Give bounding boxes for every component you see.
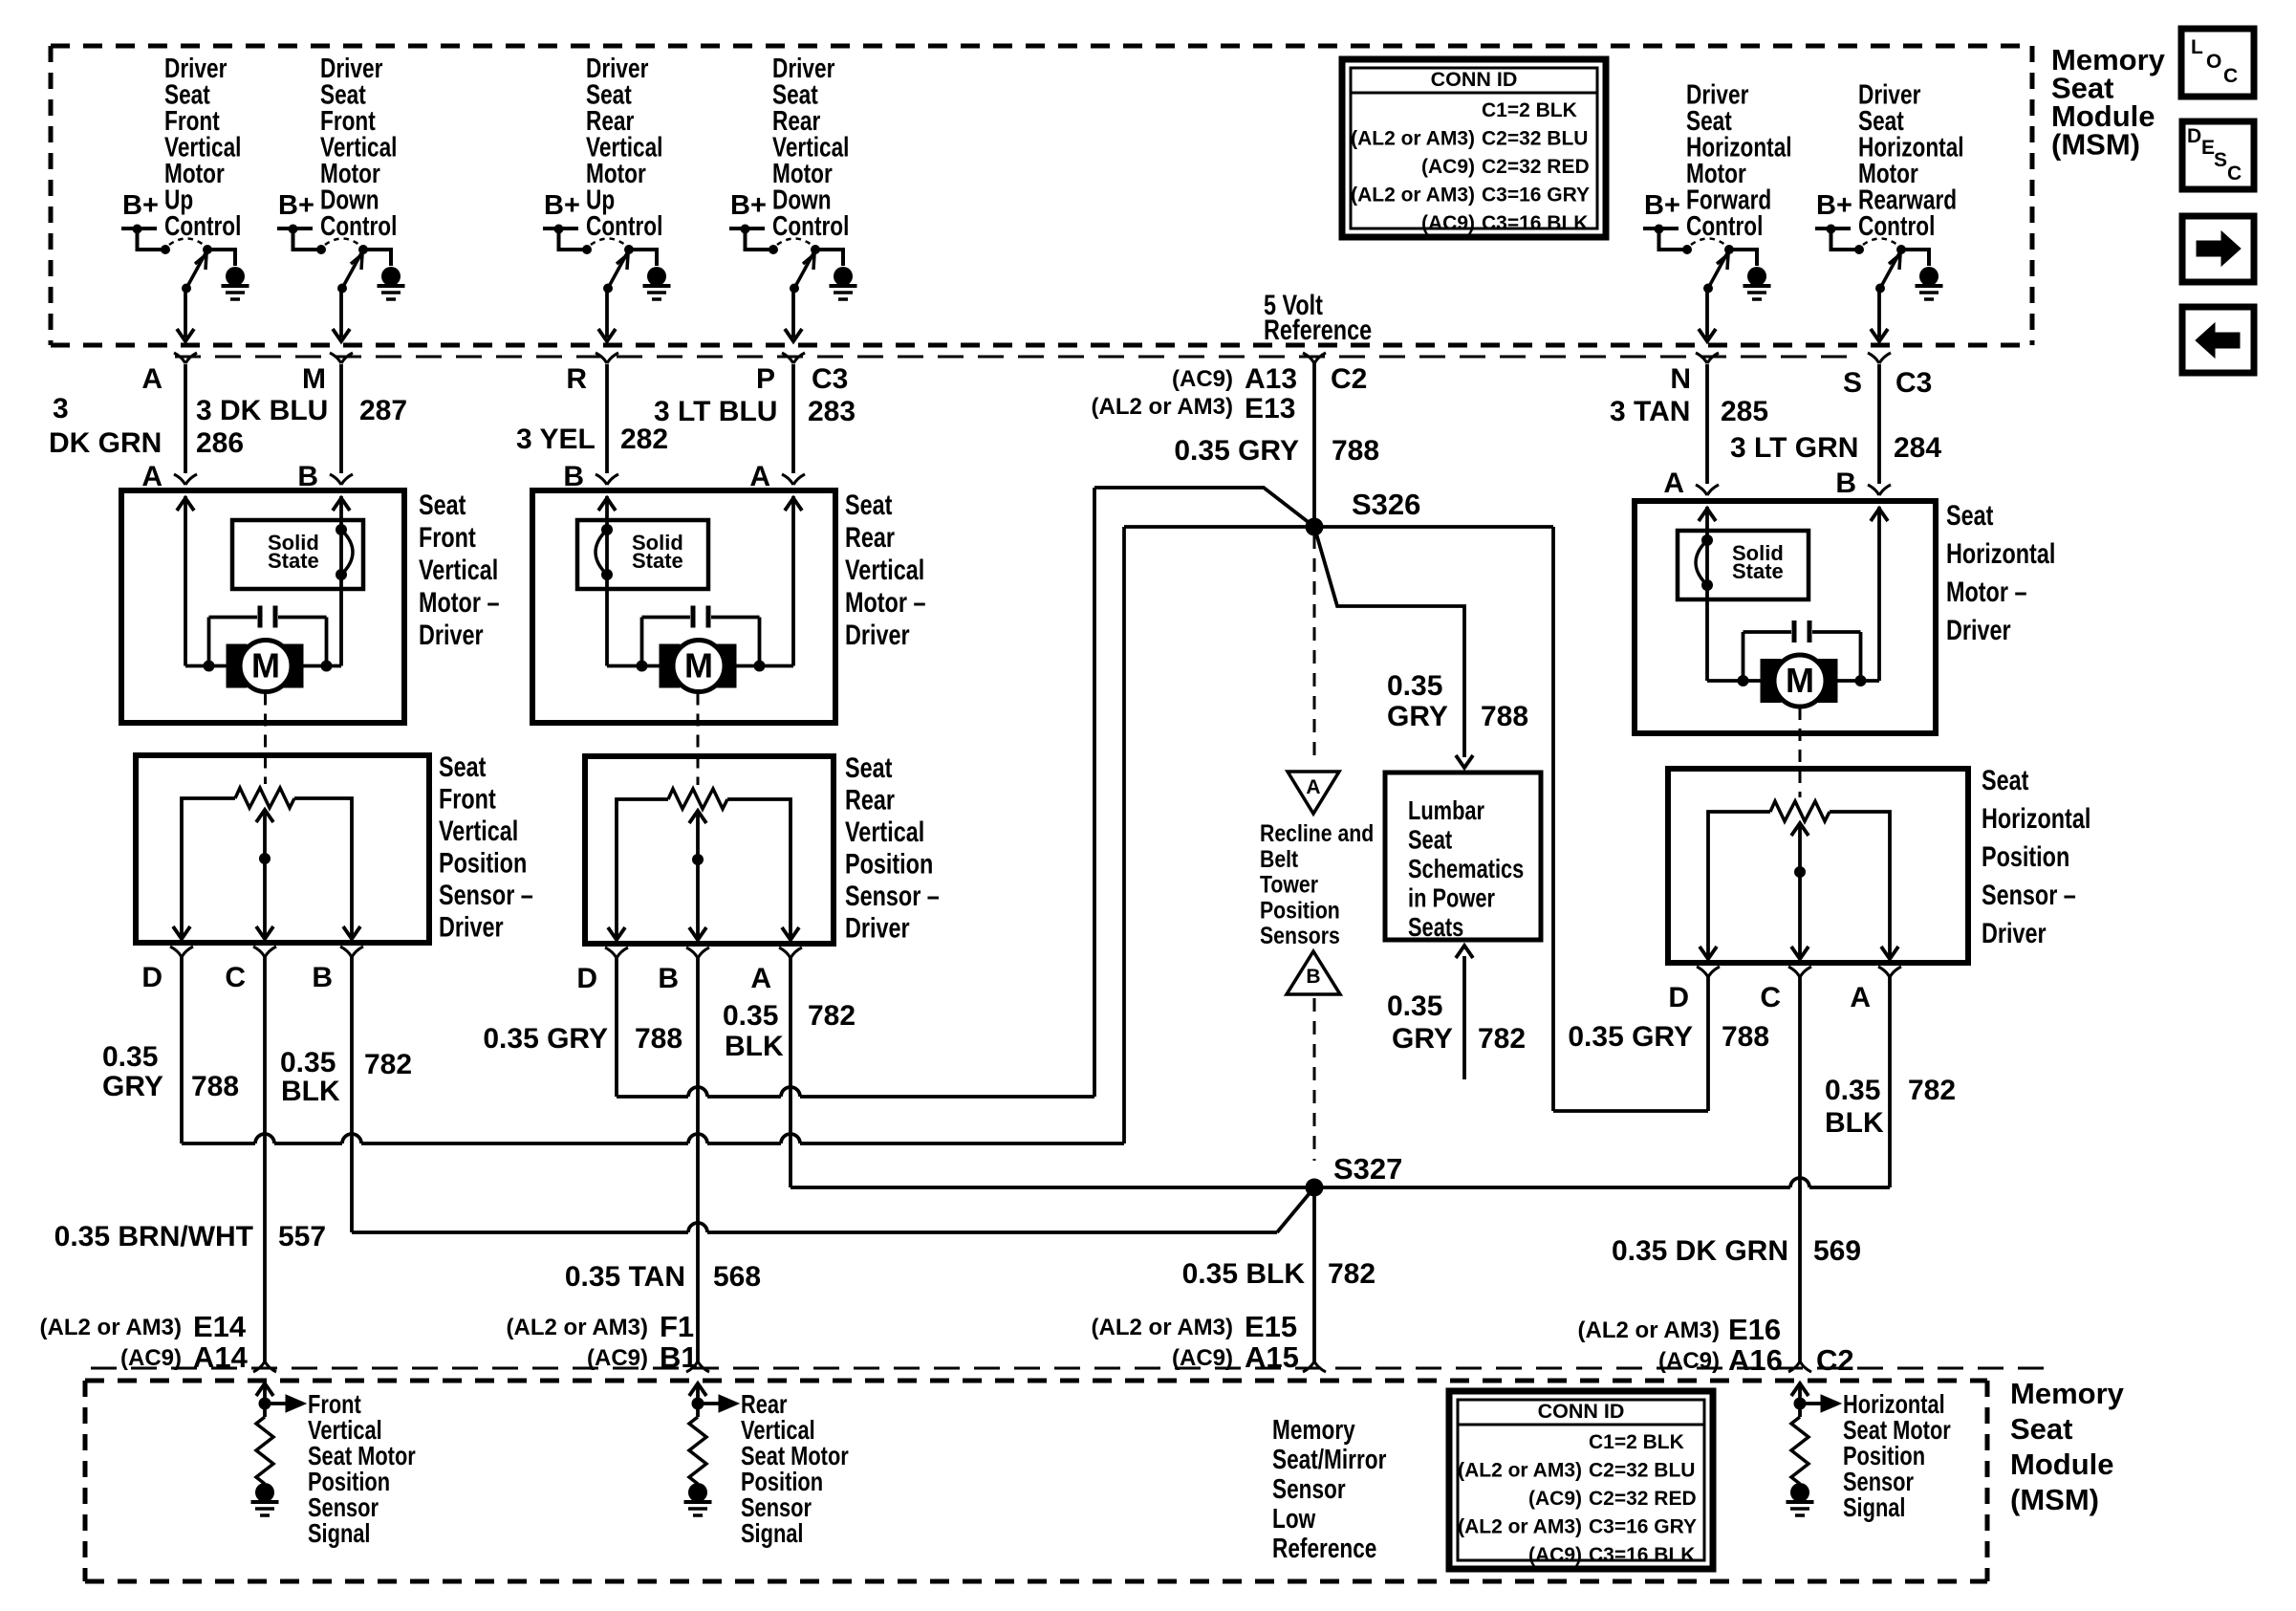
off-page triangle B	[1287, 951, 1340, 994]
svg-text:BLK: BLK	[725, 1031, 784, 1062]
svg-text:568: 568	[713, 1261, 761, 1293]
seat front vertical position sensor wiper	[256, 810, 273, 939]
svg-text:3 TAN: 3 TAN	[1610, 396, 1690, 427]
5 Volt Reference label	[1264, 289, 1372, 345]
wire 788 vertical to sensor 1 D	[1122, 527, 1126, 1143]
svg-text:Driver: Driver	[845, 619, 910, 650]
svg-text:Signal: Signal	[741, 1518, 803, 1548]
svg-text:Vertical: Vertical	[845, 554, 924, 585]
svg-text:BLK: BLK	[281, 1076, 340, 1107]
svg-text:S327: S327	[1333, 1152, 1402, 1186]
wire 782 feed from lumbar schematic	[1456, 946, 1473, 1079]
svg-text:GRY: GRY	[1387, 701, 1448, 732]
5V reference dashed stub to S327	[1313, 998, 1316, 1161]
switch SW5 driver seat horizontal motor forward control movable arm	[1703, 252, 1728, 294]
svg-text:C3=16 BLK: C3=16 BLK	[1482, 212, 1588, 234]
circuit 569 label: 0.35 DK GRN	[1612, 1235, 1861, 1267]
terminal (horizontal signal) connector	[1788, 1361, 1811, 1372]
svg-text:Sensor: Sensor	[1272, 1472, 1346, 1504]
svg-text:0.35 DK GRN: 0.35 DK GRN	[1612, 1235, 1788, 1267]
svg-text:Control: Control	[772, 209, 849, 241]
LOC legend box	[2181, 29, 2254, 97]
svg-text:M: M	[684, 646, 713, 686]
switch SW3 driver seat rear vertical motor up control label	[586, 52, 662, 241]
wire 283 upper segment	[791, 364, 795, 473]
circuit 782 label (sensor 3)	[1825, 1075, 1956, 1139]
switch SW1 driver seat front vertical motor up control ground leg	[207, 250, 249, 299]
svg-text:Control: Control	[1858, 209, 1935, 241]
circuit 282 label: 3 YEL	[516, 424, 668, 455]
svg-text:in Power: in Power	[1408, 883, 1495, 913]
svg-text:C3: C3	[1895, 367, 1932, 399]
svg-text:Sensor –: Sensor –	[1982, 879, 2076, 910]
circuit 557 label: 0.35 BRN/WHT	[54, 1221, 326, 1252]
connector face dashed line (top)	[175, 356, 1859, 359]
svg-text:Seat: Seat	[1982, 764, 2028, 795]
svg-text:0.35 GRY: 0.35 GRY	[1568, 1021, 1693, 1053]
svg-text:C1=2 BLK: C1=2 BLK	[1589, 1431, 1684, 1453]
svg-text:Vertical: Vertical	[439, 815, 518, 846]
seat rear vertical motor M2 brushes	[660, 644, 736, 687]
seat rear vertical motor M2 suppression capacitor	[642, 606, 760, 666]
svg-text:Memory: Memory	[2010, 1377, 2125, 1410]
svg-text:C: C	[1760, 982, 1781, 1013]
wire 788 bus to sensor 3 D terminal	[1553, 976, 1708, 1111]
switch SW1 driver seat front vertical motor up control label	[164, 52, 241, 241]
horizontal position sense junction dot and pointer	[1794, 1395, 1842, 1412]
svg-text:Seat: Seat	[419, 489, 466, 520]
svg-text:0.35: 0.35	[280, 1047, 336, 1078]
seat front vertical motor M1 label	[419, 489, 499, 650]
seat horizontal position sensor wiper	[1791, 823, 1809, 959]
svg-text:Seat/Mirror: Seat/Mirror	[1272, 1443, 1386, 1474]
terminal C2 (5V ref)	[1303, 353, 1326, 363]
svg-text:Sensors: Sensors	[1260, 923, 1340, 949]
svg-text:R: R	[566, 363, 587, 395]
svg-text:(AL2 or AM3): (AL2 or AM3)	[1578, 1317, 1720, 1343]
svg-text:782: 782	[1908, 1075, 1956, 1106]
svg-text:E14: E14	[193, 1310, 247, 1343]
svg-text:Control: Control	[586, 209, 662, 241]
S326 northwest branch wire 788	[1094, 488, 1314, 527]
switch SW6 driver seat horizontal motor rearward control ground leg	[1901, 250, 1943, 299]
svg-text:(AL2 or AM3): (AL2 or AM3)	[1458, 1516, 1582, 1538]
wire 788 bus to sensor 1 D terminal	[182, 956, 1124, 1143]
svg-text:C2=32 BLU: C2=32 BLU	[1482, 128, 1588, 150]
svg-text:Position: Position	[845, 848, 933, 880]
switch SW2 driver seat front vertical motor down control B+ supply	[277, 190, 317, 250]
svg-text:Control: Control	[320, 209, 397, 241]
circuit 284 label: 3 LT GRN	[1730, 432, 1941, 464]
svg-text:B+: B+	[544, 190, 580, 221]
Memory Seat Module (bottom) dashed boundary	[85, 1381, 1987, 1581]
seat front vertical motor M1 solid state box	[232, 520, 363, 589]
svg-text:788: 788	[1722, 1021, 1769, 1053]
svg-text:Rear: Rear	[845, 521, 895, 553]
svg-text:Low: Low	[1272, 1502, 1316, 1534]
svg-text:Driver: Driver	[845, 912, 910, 944]
svg-text:Module: Module	[2010, 1448, 2114, 1481]
svg-text:Seat: Seat	[1946, 499, 1993, 531]
svg-text:CONN ID: CONN ID	[1431, 68, 1518, 91]
front vertical position sense ground	[251, 1483, 279, 1515]
svg-text:A13: A13	[1245, 363, 1297, 395]
svg-text:Memory: Memory	[1272, 1413, 1355, 1445]
seat rear vertical position sensor potentiometer resistor	[668, 789, 727, 809]
svg-text:State: State	[268, 549, 319, 573]
svg-text:Belt: Belt	[1260, 845, 1298, 872]
svg-text:B+: B+	[122, 190, 159, 221]
svg-text:(MSM): (MSM)	[2051, 128, 2140, 162]
mechanical link motor M1 to sensor	[264, 693, 267, 785]
seat rear vertical motor M2 terminal letters	[563, 461, 770, 492]
rear vertical position sense junction dot and pointer	[692, 1395, 740, 1412]
seat rear vertical motor M2 motor symbol M	[673, 641, 725, 692]
svg-text:569: 569	[1813, 1235, 1861, 1267]
svg-text:L: L	[2191, 36, 2203, 58]
switch SW3 driver seat rear vertical motor up control contacts and dashed throw arc	[582, 239, 634, 255]
svg-text:Vertical: Vertical	[419, 554, 498, 585]
seat front vertical motor M1 armature cross wire	[185, 664, 341, 668]
terminal M (MSM C2)	[302, 353, 353, 395]
switch SW3 driver seat rear vertical motor up control ground leg	[629, 250, 671, 299]
svg-text:Control: Control	[1686, 209, 1763, 241]
svg-text:0.35 GRY: 0.35 GRY	[483, 1023, 608, 1055]
svg-text:(AC9): (AC9)	[1528, 1544, 1582, 1566]
terminal A (MSM C2)	[141, 353, 197, 395]
switch SW1 driver seat front vertical motor up control B+ supply	[121, 190, 162, 250]
back arrow legend box	[2182, 307, 2254, 373]
svg-text:B+: B+	[278, 190, 314, 221]
wire 782 bus sensor 2 A to sensor 3 A	[791, 957, 1890, 1187]
svg-text:B: B	[1835, 468, 1856, 499]
seat front vertical motor M1 right terminal wire	[333, 496, 350, 666]
seat rear vertical motor M2 breaker contacts in solid state box	[596, 524, 613, 580]
svg-text:3 LT GRN: 3 LT GRN	[1730, 432, 1858, 464]
wire 557 sensor 1 C signal	[263, 956, 267, 1361]
svg-text:0.35 GRY: 0.35 GRY	[1174, 435, 1299, 467]
svg-text:Front: Front	[419, 521, 476, 553]
svg-text:M: M	[251, 646, 280, 686]
svg-text:A: A	[141, 461, 162, 492]
DESC legend box	[2182, 121, 2254, 189]
wire 788 bus to sensor 2 D terminal	[617, 957, 1094, 1097]
mechanical link motor M2 to sensor	[697, 693, 700, 786]
front vertical position sense resistor	[256, 1417, 273, 1484]
terminal R (MSM C2)	[566, 353, 618, 395]
seat front vertical position sensor label	[439, 751, 533, 943]
terminal E14/A14 labels	[40, 1310, 249, 1374]
switch SW2 driver seat front vertical motor down control output wire with arrow	[333, 289, 350, 342]
wire 788 vertical to sensor 3 D	[1551, 527, 1555, 1111]
svg-text:Motor –: Motor –	[845, 586, 925, 618]
seat rear vertical position sensor right leg	[727, 799, 799, 940]
svg-text:B: B	[312, 962, 333, 993]
seat front vertical position sensor right leg	[294, 798, 360, 939]
seat horizontal motor M3 breaker contacts in solid state box	[1696, 534, 1713, 591]
wire 569 sensor 3 C signal	[1798, 976, 1802, 1361]
svg-text:0.35 BLK: 0.35 BLK	[1182, 1258, 1306, 1290]
S326 east branch wire 788	[1314, 525, 1553, 529]
svg-text:GRY: GRY	[102, 1071, 163, 1102]
svg-text:782: 782	[808, 1000, 856, 1032]
svg-text:Sensor –: Sensor –	[439, 879, 533, 910]
svg-text:(AC9): (AC9)	[1658, 1348, 1720, 1374]
svg-text:D: D	[2187, 125, 2201, 147]
svg-text:Vertical: Vertical	[845, 816, 924, 847]
svg-text:(AL2 or AM3): (AL2 or AM3)	[1351, 185, 1475, 207]
svg-text:286: 286	[196, 427, 244, 459]
wire 284 upper segment	[1877, 364, 1881, 484]
svg-text:A: A	[749, 461, 770, 492]
circuit 782 label (lumbar)	[1387, 991, 1526, 1055]
switch SW3 driver seat rear vertical motor up control B+ supply	[543, 190, 583, 250]
seat horizontal motor M3 outer box	[1635, 501, 1936, 733]
splice S326	[1306, 488, 1421, 536]
wire 287 upper segment	[339, 364, 343, 473]
seat horizontal motor M3 armature cross wire	[1707, 679, 1879, 683]
svg-text:0.35: 0.35	[1825, 1075, 1880, 1106]
svg-text:C3=16 GRY: C3=16 GRY	[1589, 1516, 1697, 1538]
wire 285 upper segment	[1705, 364, 1709, 484]
switch SW5 driver seat horizontal motor forward control B+ supply	[1643, 190, 1683, 250]
svg-text:Seat: Seat	[845, 751, 892, 783]
circuit 782 label (sensor 1)	[280, 1047, 412, 1107]
svg-text:788: 788	[1332, 435, 1379, 467]
svg-text:Signal: Signal	[1843, 1492, 1905, 1522]
svg-text:Seat: Seat	[845, 489, 892, 520]
svg-text:282: 282	[620, 424, 668, 455]
svg-text:284: 284	[1894, 432, 1941, 464]
svg-text:C: C	[225, 962, 246, 993]
front vertical position sense label	[308, 1389, 416, 1548]
svg-text:Motor –: Motor –	[1946, 576, 2026, 607]
svg-text:C: C	[2227, 163, 2242, 185]
svg-text:D: D	[576, 963, 597, 994]
CONN ID (top) table	[1342, 59, 1606, 237]
svg-text:C3=16 GRY: C3=16 GRY	[1482, 185, 1590, 207]
switch SW2 driver seat front vertical motor down control contacts and dashed throw arc	[316, 239, 368, 255]
switch SW5 driver seat horizontal motor forward control contacts and dashed throw arc	[1682, 239, 1734, 255]
switch SW6 driver seat horizontal motor rearward control contacts and dashed throw arc	[1854, 239, 1906, 255]
switch SW5 driver seat horizontal motor forward control ground leg	[1729, 250, 1771, 299]
seat front vertical position sensor outer box	[136, 755, 429, 943]
svg-text:M: M	[302, 363, 326, 395]
seat horizontal position sensor left leg	[1700, 812, 1770, 959]
svg-text:Schematics: Schematics	[1408, 854, 1524, 883]
switch SW5 driver seat horizontal motor forward control output wire with arrow	[1699, 289, 1716, 342]
svg-text:B: B	[297, 461, 318, 492]
seat horizontal position sensor outer box	[1668, 769, 1968, 963]
front vertical position sense junction dot and pointer	[259, 1395, 307, 1412]
seat front vertical motor M1 junction dots	[204, 661, 333, 672]
svg-text:Driver: Driver	[419, 619, 484, 650]
seat horizontal motor M3 terminal letters	[1663, 468, 1856, 499]
svg-text:M: M	[1786, 661, 1814, 700]
svg-text:GRY: GRY	[1392, 1023, 1453, 1055]
seat horizontal motor M3 left terminal wire	[1699, 507, 1716, 681]
terminal E16/A16 labels	[1578, 1313, 1854, 1377]
svg-text:Motor –: Motor –	[419, 586, 499, 618]
svg-text:A: A	[1663, 468, 1684, 499]
seat horizontal position sensor terminal connectors	[1697, 967, 1901, 977]
svg-text:3 LT BLU: 3 LT BLU	[654, 396, 777, 427]
seat horizontal motor M3 suppression capacitor	[1744, 620, 1861, 681]
wire 788 feed to lumbar schematic	[1314, 527, 1473, 768]
wire 782 S327 to MSM low reference	[1312, 1187, 1316, 1361]
svg-text:D: D	[141, 962, 162, 993]
svg-text:DK GRN: DK GRN	[49, 427, 162, 459]
svg-text:(AC9): (AC9)	[1172, 366, 1233, 392]
seat horizontal motor M3 solid state box	[1678, 531, 1809, 599]
switch SW5 driver seat horizontal motor forward control label	[1686, 78, 1792, 242]
switch SW1 driver seat front vertical motor up control movable arm	[182, 252, 206, 294]
svg-text:A16: A16	[1728, 1343, 1783, 1377]
terminal F1/B1 labels	[507, 1310, 698, 1374]
seat rear vertical position sensor outer box	[585, 756, 834, 944]
svg-text:Horizontal: Horizontal	[1982, 802, 2090, 834]
seat horizontal motor M3 junction dots	[1738, 675, 1867, 686]
svg-text:Position: Position	[1982, 840, 2069, 872]
terminal E15/A15 labels	[1092, 1310, 1299, 1374]
svg-text:287: 287	[359, 395, 407, 426]
svg-text:Control: Control	[164, 209, 241, 241]
5V reference dashed stub to triangle A	[1313, 535, 1316, 765]
svg-text:557: 557	[278, 1221, 326, 1252]
svg-text:A: A	[1306, 776, 1320, 798]
svg-text:Lumbar: Lumbar	[1408, 795, 1484, 825]
seat front vertical motor M1 motor symbol M	[240, 641, 292, 692]
Memory Seat Module (top) label	[2051, 43, 2166, 162]
horizontal position sense resistor	[1791, 1417, 1809, 1484]
switch SW4 driver seat rear vertical motor down control output wire with arrow	[785, 289, 802, 342]
seat rear vertical position sensor terminal connectors	[605, 947, 802, 958]
svg-text:C: C	[2223, 65, 2238, 87]
circuit 568 label: 0.35 TAN	[565, 1261, 761, 1293]
switch SW6 driver seat horizontal motor rearward control label	[1858, 78, 1964, 242]
seat front vertical motor M1 brushes	[227, 644, 303, 687]
svg-text:788: 788	[635, 1023, 682, 1055]
svg-text:A: A	[1850, 982, 1871, 1013]
wire 782 from sensor 1 B to S327	[352, 956, 1314, 1232]
svg-text:C2: C2	[1331, 363, 1367, 395]
svg-text:B+: B+	[1816, 190, 1852, 221]
memory seat/mirror sensor low reference label	[1272, 1413, 1386, 1563]
wire 286 upper segment	[184, 364, 187, 473]
svg-text:(AL2 or AM3): (AL2 or AM3)	[1458, 1460, 1582, 1482]
svg-text:782: 782	[1328, 1258, 1375, 1290]
seat front vertical motor M1 terminal letters	[141, 461, 318, 492]
svg-text:B: B	[563, 461, 584, 492]
lumbar seat schematics reference box	[1385, 773, 1541, 943]
svg-text:N: N	[1670, 363, 1691, 395]
svg-text:C3: C3	[812, 363, 848, 395]
seat rear vertical position sensor left leg	[608, 799, 668, 940]
seat horizontal motor M3 motor symbol M	[1774, 655, 1826, 707]
wire 788 vertical to sensor 2 D	[1093, 488, 1096, 1097]
svg-text:A: A	[141, 363, 162, 395]
circuit 788 label (sensor 3)	[1568, 1021, 1769, 1053]
seat front vertical motor M1 outer box	[121, 490, 404, 723]
seat front vertical motor M1 left terminal wire	[177, 496, 194, 666]
svg-text:0.35: 0.35	[102, 1041, 158, 1073]
svg-text:C2: C2	[1816, 1343, 1854, 1377]
motor M3 terminal connectors	[1696, 485, 1891, 495]
svg-text:State: State	[632, 549, 683, 573]
svg-text:788: 788	[191, 1071, 239, 1102]
svg-text:Seat: Seat	[1408, 825, 1453, 855]
seat horizontal position sensor label	[1982, 764, 2090, 948]
svg-text:BLK: BLK	[1825, 1107, 1884, 1139]
terminal N (MSM C3)	[1670, 353, 1719, 395]
svg-text:S: S	[2214, 149, 2227, 171]
svg-text:C2=32 RED: C2=32 RED	[1482, 156, 1590, 178]
seat rear vertical motor M2 solid state box	[577, 520, 708, 589]
svg-text:Driver: Driver	[1982, 917, 2047, 948]
switch SW1 driver seat front vertical motor up control output wire with arrow	[177, 289, 194, 342]
switch SW6 driver seat horizontal motor rearward control output wire with arrow	[1871, 289, 1888, 342]
terminal P (MSM C3)	[756, 353, 848, 395]
svg-text:(AC9): (AC9)	[1421, 212, 1475, 234]
motor M2 terminal connectors	[596, 474, 805, 485]
seat horizontal position sensor right leg	[1830, 812, 1898, 959]
switch SW4 driver seat rear vertical motor down control ground leg	[815, 250, 857, 299]
switch SW2 driver seat front vertical motor down control ground leg	[363, 250, 405, 299]
seat horizontal position sensor potentiometer resistor	[1770, 801, 1830, 821]
circuit 283 label: 3 LT BLU	[654, 396, 856, 427]
terminal S (MSM C3)	[1843, 353, 1932, 399]
svg-text:C2=32 RED: C2=32 RED	[1589, 1488, 1697, 1510]
svg-text:788: 788	[1481, 701, 1528, 732]
svg-text:C3=16 BLK: C3=16 BLK	[1589, 1544, 1695, 1566]
svg-text:(AC9): (AC9)	[1528, 1488, 1582, 1510]
svg-text:(AL2 or AM3): (AL2 or AM3)	[1092, 1315, 1233, 1340]
svg-text:3 DK BLU: 3 DK BLU	[196, 395, 328, 426]
circuit 782 label (sensor 2)	[723, 1000, 856, 1062]
switch SW1 driver seat front vertical motor up control contacts and dashed throw arc	[161, 239, 212, 255]
terminal (rear vertical signal) connector	[686, 1361, 709, 1372]
svg-text:F1: F1	[660, 1310, 694, 1343]
svg-text:Seat: Seat	[439, 751, 486, 782]
connector face dashed line (bottom)	[91, 1367, 2046, 1370]
svg-text:B+: B+	[1644, 190, 1680, 221]
svg-text:Driver: Driver	[1946, 614, 2011, 645]
svg-text:782: 782	[364, 1049, 412, 1080]
svg-text:C1=2 BLK: C1=2 BLK	[1482, 99, 1577, 121]
seat front vertical position sensor terminal letters	[141, 962, 333, 993]
svg-text:(AL2 or AM3): (AL2 or AM3)	[40, 1315, 182, 1340]
switch SW4 driver seat rear vertical motor down control label	[772, 52, 849, 241]
horizontal position sense ground	[1787, 1483, 1814, 1515]
svg-text:(AL2 or AM3): (AL2 or AM3)	[1092, 394, 1233, 420]
off-page triangle A	[1288, 772, 1339, 814]
svg-text:O: O	[2206, 51, 2221, 73]
Memory Seat Module (top) dashed boundary	[51, 46, 2032, 345]
seat front vertical position sensor left leg	[173, 798, 235, 939]
svg-text:0.35 TAN: 0.35 TAN	[565, 1261, 685, 1293]
switch SW6 driver seat horizontal motor rearward control B+ supply	[1815, 190, 1855, 250]
horizontal position sense label	[1843, 1389, 1951, 1522]
circuit 788 label (sensor 1)	[102, 1041, 239, 1102]
svg-text:E: E	[2201, 137, 2215, 159]
seat rear vertical position sensor wiper	[689, 811, 706, 940]
circuit 285 label: 3 TAN	[1610, 396, 1768, 427]
pin A13/E13 labels	[1092, 363, 1368, 425]
front vertical position sense signal input arrow	[256, 1382, 273, 1417]
svg-text:0.35: 0.35	[1387, 670, 1442, 702]
seat rear vertical position sensor label	[845, 751, 940, 944]
seat front vertical position sensor terminal connectors	[170, 947, 363, 957]
